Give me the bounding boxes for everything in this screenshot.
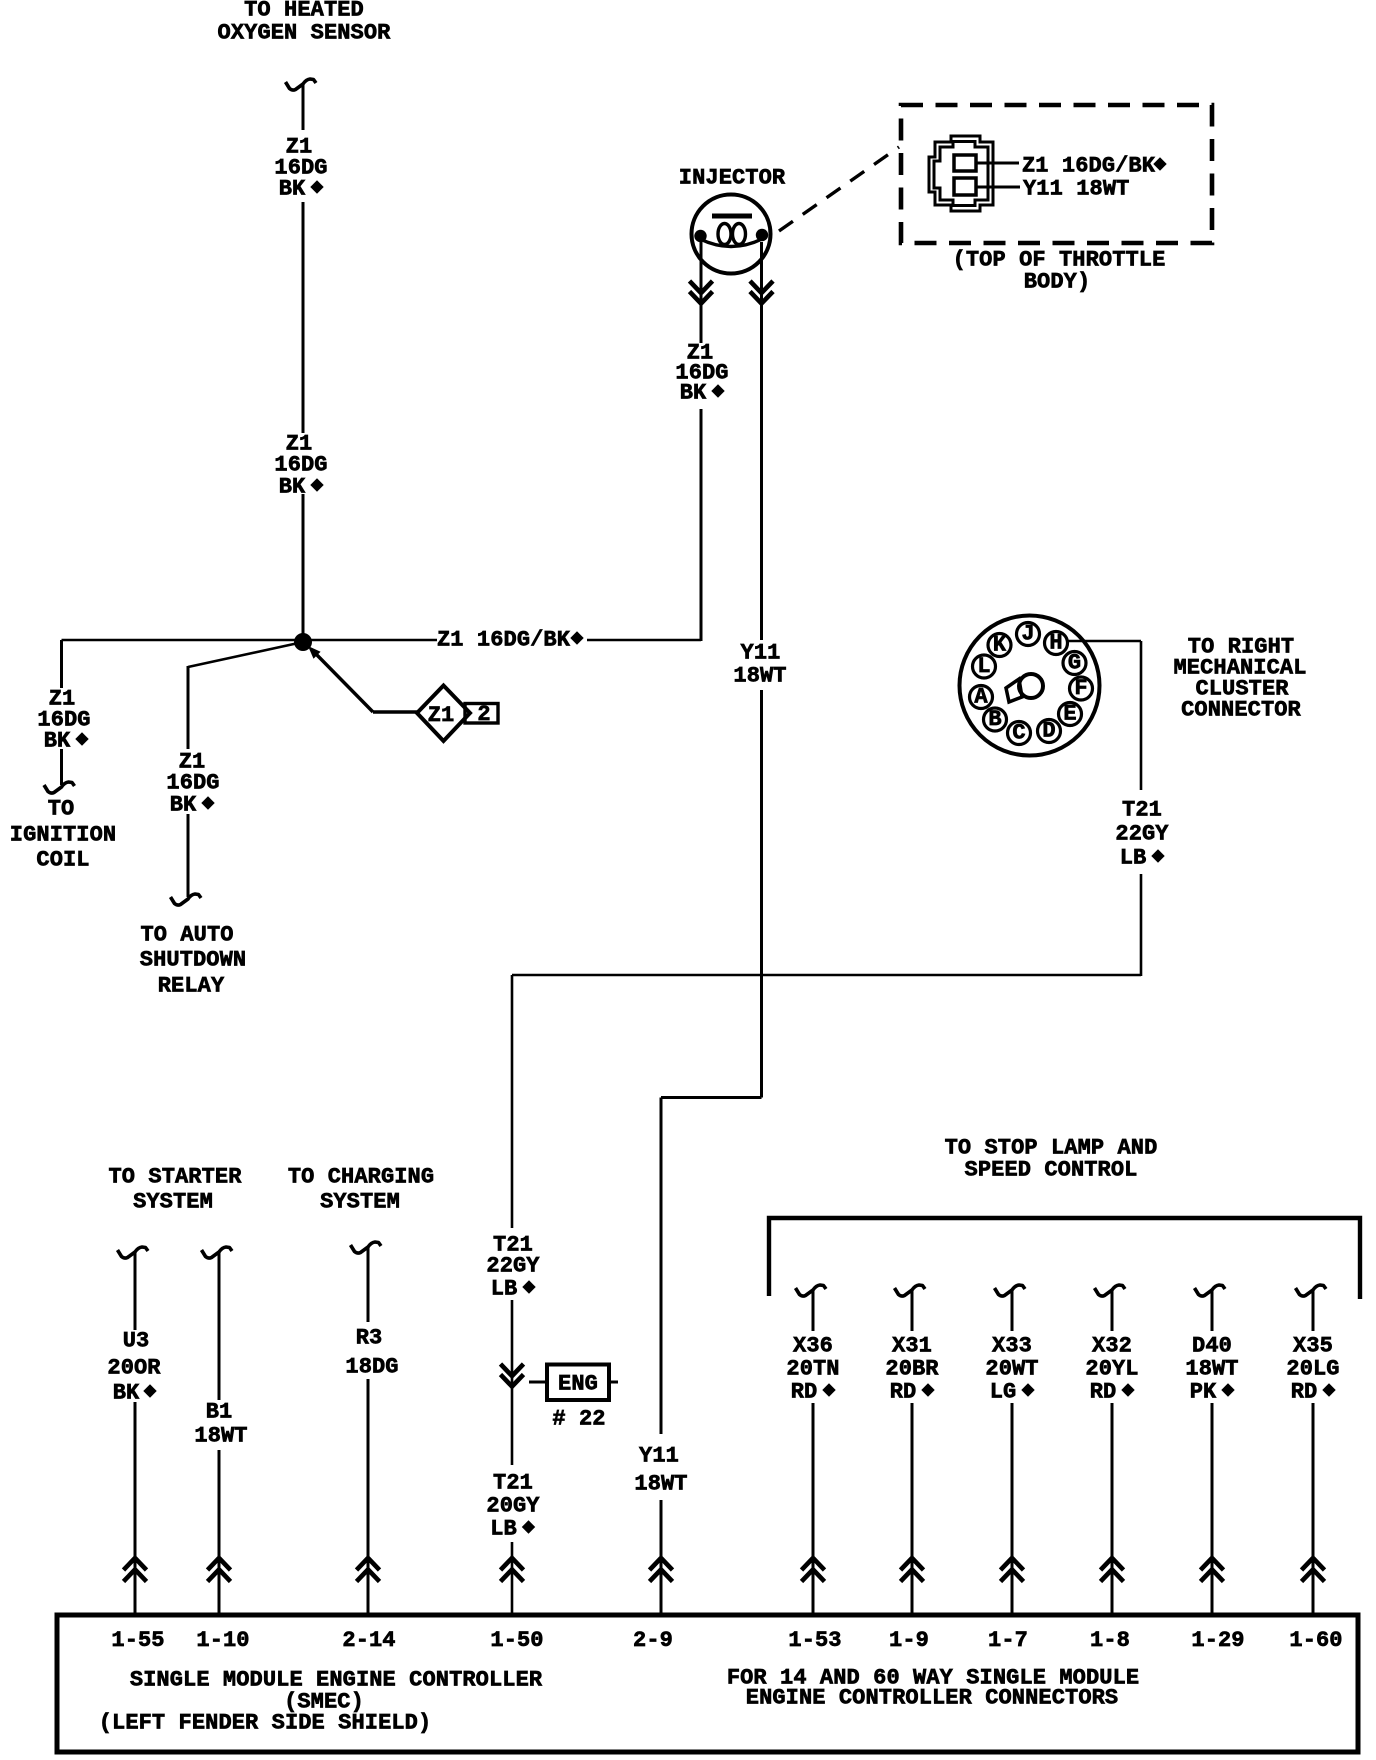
svg-text:SYSTEM: SYSTEM [320, 1190, 400, 1215]
wire X31 into SMEC [911, 1403, 914, 1614]
svg-text:20LG: 20LG [1286, 1357, 1339, 1382]
svg-text:BODY): BODY) [1024, 270, 1091, 295]
svg-text:18WT: 18WT [634, 1472, 687, 1497]
svg-text:E: E [1063, 702, 1076, 727]
cluster pin L [973, 655, 996, 678]
svg-text:Y11: Y11 [639, 1444, 679, 1469]
right mechanical cluster connector circle [960, 616, 1100, 756]
throttle body connector outline (inner) [934, 142, 988, 206]
svg-text:TO CHARGING: TO CHARGING [288, 1165, 434, 1190]
wire T21 from cluster pin H [1067, 640, 1141, 643]
wire X35: break symbol [1296, 1285, 1327, 1296]
svg-text:F: F [1074, 676, 1087, 701]
svg-text:L: L [977, 654, 990, 679]
svg-text:BK: BK [170, 793, 197, 818]
svg-text:2-14: 2-14 [342, 1628, 395, 1653]
wire Y11 vertical to SMEC [660, 1098, 663, 1435]
svg-text:D40: D40 [1192, 1334, 1232, 1359]
wire Y11 lower segment [760, 690, 763, 1098]
svg-text:PK: PK [1190, 1380, 1217, 1405]
cluster pin K [988, 634, 1011, 657]
wire Z1 16DG/BK from injector left pin [700, 242, 703, 343]
cluster pin B [984, 708, 1007, 731]
svg-text:1-10: 1-10 [196, 1628, 249, 1653]
svg-text:K: K [993, 633, 1007, 658]
svg-text:20TN: 20TN [786, 1357, 839, 1382]
svg-text:SPEED CONTROL: SPEED CONTROL [965, 1158, 1138, 1183]
svg-text:Z1 16DG/BK: Z1 16DG/BK [1022, 154, 1156, 179]
wire B1: break symbol [202, 1247, 233, 1258]
svg-text:T21: T21 [493, 1471, 533, 1496]
wire T21 vertical to horizontal run [1140, 874, 1143, 976]
wire U3 into SMEC pin 1-55 [134, 1402, 137, 1614]
wire T21 into SMEC pin 1-50 [511, 1542, 514, 1614]
svg-text:TO HEATED: TO HEATED [244, 0, 364, 23]
svg-text:TO STARTER: TO STARTER [108, 1165, 242, 1190]
injector right pin [756, 229, 768, 241]
junction node Z1 splice [294, 633, 312, 651]
wire Z1 middle segment [302, 202, 305, 433]
svg-text:# 22: # 22 [552, 1407, 605, 1432]
connector pin 1 square [954, 155, 976, 171]
injector coil bottom arc [700, 239, 762, 247]
svg-text:LB: LB [1120, 846, 1147, 871]
svg-text:BK: BK [44, 729, 71, 754]
wire X35 into SMEC [1312, 1403, 1315, 1614]
wire Z1 16DG/BK horizontal right segment [587, 639, 701, 642]
svg-text:18DG: 18DG [345, 1355, 398, 1380]
svg-text:R3: R3 [356, 1326, 383, 1351]
pin 2 lead line [976, 186, 1020, 189]
wire T21 vertical upper [1140, 641, 1143, 790]
ENG splice box [529, 1381, 547, 1384]
throttle body connector outline (outer) [929, 136, 993, 211]
wire Z1 top segment [302, 85, 305, 130]
wire X33 into SMEC [1011, 1403, 1014, 1614]
injector left pin [694, 230, 706, 242]
wire R3 upper [367, 1248, 370, 1322]
wire X36 into SMEC [812, 1403, 815, 1614]
wire B1 upper [218, 1253, 221, 1400]
arrow pointing to junction from Z1 zone diamond [315, 653, 373, 712]
wire U3 upper [134, 1253, 137, 1330]
svg-text:SYSTEM: SYSTEM [133, 1190, 213, 1215]
wire auto shutdown vertical lower [187, 814, 190, 897]
svg-text:Z1 16DG/BK: Z1 16DG/BK [437, 628, 571, 653]
wire X36 upper [812, 1291, 815, 1331]
svg-text:X36: X36 [793, 1334, 833, 1359]
wire T21 vertical at left [511, 975, 514, 1228]
dashed box (top of throttle body detail) [901, 105, 1212, 243]
break symbol to ignition coil [44, 782, 75, 793]
svg-text:SHUTDOWN: SHUTDOWN [140, 948, 246, 973]
wire U3: break symbol [118, 1247, 149, 1258]
svg-text:1-50: 1-50 [490, 1628, 543, 1653]
svg-text:INJECTOR: INJECTOR [679, 166, 786, 191]
wire Z1 from heated oxygen sensor: break symbol [286, 79, 317, 90]
wire X33: break symbol [995, 1285, 1026, 1296]
zone diamond Z1 [417, 686, 470, 742]
svg-text:IGNITION: IGNITION [10, 823, 116, 848]
svg-text:2: 2 [477, 702, 490, 727]
svg-text:20BR: 20BR [885, 1357, 939, 1382]
svg-text:20OR: 20OR [107, 1356, 161, 1381]
svg-text:RD: RD [791, 1380, 818, 1405]
svg-text:CONNECTOR: CONNECTOR [1181, 698, 1301, 723]
dashed leader line from injector to throttle body detail [779, 147, 899, 231]
svg-text:U3: U3 [123, 1329, 150, 1354]
svg-text:T21: T21 [1122, 798, 1162, 823]
svg-text:1-53: 1-53 [788, 1628, 841, 1653]
cluster pin C [1008, 722, 1031, 745]
svg-text:B: B [988, 707, 1001, 732]
svg-text:OXYGEN SENSOR: OXYGEN SENSOR [218, 21, 392, 46]
svg-text:2-9: 2-9 [633, 1628, 673, 1653]
svg-text:RD: RD [1291, 1380, 1318, 1405]
cluster pin A [970, 686, 993, 709]
wire Y11 jog left [661, 1096, 762, 1099]
svg-text:ENG: ENG [558, 1372, 598, 1397]
injector top bar [712, 214, 752, 219]
svg-text:1-55: 1-55 [111, 1628, 164, 1653]
svg-text:BK: BK [113, 1381, 140, 1406]
injector coil loops [718, 224, 731, 245]
svg-text:A: A [974, 685, 988, 710]
svg-text:LB: LB [490, 1517, 517, 1542]
wire X32 upper [1111, 1291, 1114, 1331]
wire D40: break symbol [1195, 1285, 1226, 1296]
svg-text:BK: BK [680, 381, 707, 406]
wire D40 into SMEC [1211, 1403, 1214, 1614]
svg-text:22GY: 22GY [1115, 822, 1169, 847]
connector pin 2 square [954, 178, 976, 195]
wire injector left lower segment to horizontal [700, 409, 703, 641]
break symbol to auto shutdown relay [171, 894, 202, 905]
svg-text:Z1: Z1 [428, 703, 455, 728]
svg-text:Y11 18WT: Y11 18WT [1023, 177, 1129, 202]
svg-text:20YL: 20YL [1085, 1357, 1138, 1382]
svg-text:1-8: 1-8 [1090, 1628, 1130, 1653]
svg-text:1-60: 1-60 [1289, 1628, 1342, 1653]
svg-text:LG: LG [990, 1380, 1017, 1405]
cluster pin J [1017, 623, 1040, 646]
svg-text:(LEFT FENDER SIDE SHIELD): (LEFT FENDER SIDE SHIELD) [99, 1711, 432, 1736]
wire D40 upper [1211, 1291, 1214, 1331]
svg-text:RELAY: RELAY [158, 974, 225, 999]
svg-text:G: G [1068, 651, 1081, 676]
wire X31: break symbol [895, 1285, 926, 1296]
svg-text:1-29: 1-29 [1191, 1628, 1244, 1653]
svg-text:18WT: 18WT [1185, 1357, 1238, 1382]
wire X32: break symbol [1095, 1285, 1126, 1296]
wire X32 into SMEC [1111, 1403, 1114, 1614]
wire T21 horizontal run [512, 974, 1141, 977]
svg-text:1-9: 1-9 [889, 1628, 929, 1653]
wire auto shutdown vertical upper [187, 666, 190, 749]
svg-text:20GY: 20GY [486, 1494, 540, 1519]
wire R3 into SMEC pin 2-14 [367, 1379, 370, 1614]
wire ignition branch lower [60, 749, 63, 785]
svg-text:B1: B1 [206, 1400, 233, 1425]
zone reference box 2 [465, 704, 498, 724]
wire to auto shutdown relay: diagonal from junction [188, 642, 303, 667]
wire X31 upper [911, 1291, 914, 1331]
svg-text:LB: LB [491, 1277, 518, 1302]
svg-text:20WT: 20WT [985, 1357, 1038, 1382]
svg-text:H: H [1049, 631, 1062, 656]
cluster pin D [1038, 720, 1061, 743]
wire B1 into SMEC pin 1-10 [218, 1450, 221, 1614]
svg-text:Y11: Y11 [741, 641, 781, 666]
svg-text:18WT: 18WT [194, 1424, 247, 1449]
wire to ignition coil: vertical drop [60, 640, 63, 688]
svg-text:TO: TO [48, 797, 75, 822]
wire X35 upper [1312, 1291, 1315, 1331]
cluster pin H [1045, 632, 1068, 655]
svg-text:COIL: COIL [36, 848, 89, 873]
cluster pin F [1070, 677, 1093, 700]
svg-text:D: D [1042, 719, 1055, 744]
svg-text:22GY: 22GY [486, 1254, 540, 1279]
cluster keyway bulb [1019, 674, 1043, 698]
wire Z1 to junction [302, 494, 305, 642]
svg-text:X31: X31 [892, 1334, 932, 1359]
wire R3: break symbol [351, 1242, 382, 1253]
svg-text:ENGINE CONTROLLER CONNECTORS: ENGINE CONTROLLER CONNECTORS [746, 1686, 1118, 1711]
injector body circle [692, 195, 771, 274]
svg-text:J: J [1021, 622, 1034, 647]
cluster pin E [1059, 703, 1082, 726]
wire X36: break symbol [796, 1285, 827, 1296]
wire T21 through ENG splice [511, 1300, 514, 1465]
svg-text:18WT: 18WT [733, 664, 786, 689]
wire Y11 from injector right pin [760, 242, 763, 640]
pin 1 lead line [976, 162, 1019, 165]
svg-text:1-7: 1-7 [988, 1628, 1028, 1653]
svg-text:X35: X35 [1293, 1334, 1333, 1359]
svg-text:C: C [1012, 721, 1025, 746]
wire Y11 into SMEC pin 2-9 [660, 1500, 663, 1614]
svg-text:RD: RD [890, 1380, 917, 1405]
cluster pin G [1063, 652, 1086, 675]
svg-text:X33: X33 [992, 1334, 1032, 1359]
wire X33 upper [1011, 1291, 1014, 1331]
svg-text:RD: RD [1090, 1380, 1117, 1405]
stop lamp group bracket [769, 1218, 1360, 1299]
svg-text:TO AUTO: TO AUTO [140, 923, 233, 948]
svg-text:BK: BK [279, 177, 306, 202]
SMEC box [57, 1615, 1358, 1752]
wire Z1 16DG/BK horizontal left segment [62, 639, 438, 642]
svg-text:X32: X32 [1092, 1334, 1132, 1359]
